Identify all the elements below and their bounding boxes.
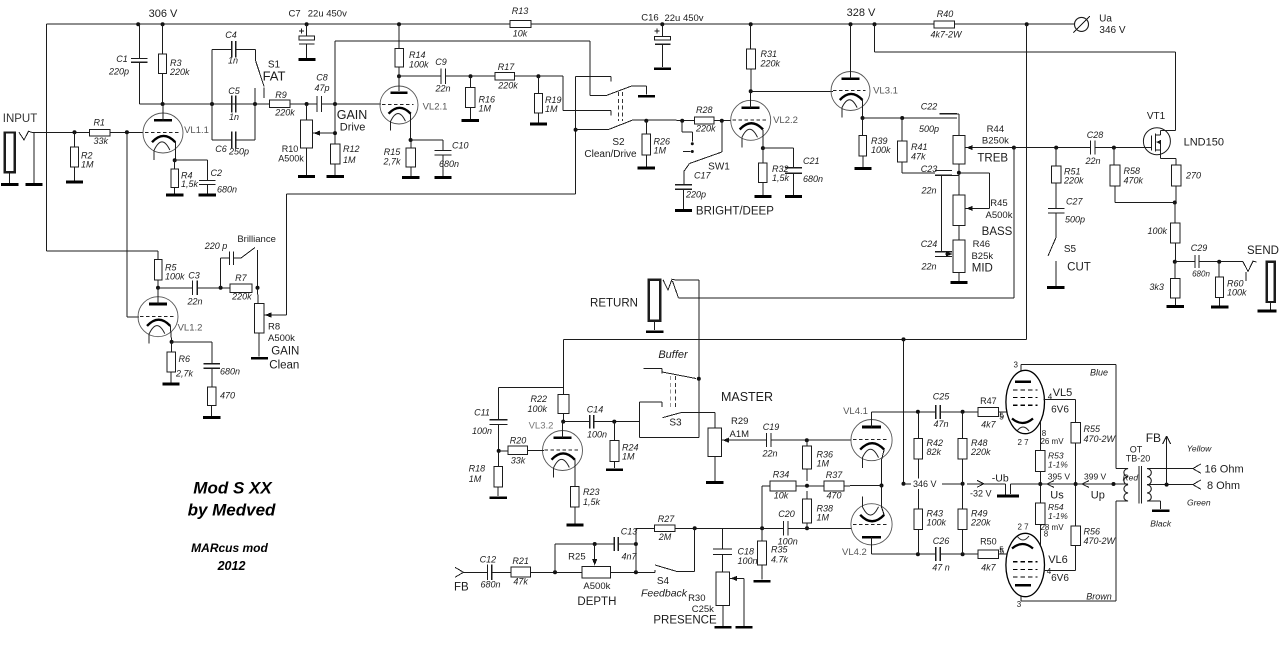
svg-text:4k7: 4k7 [981,420,997,430]
svg-text:R46: R46 [973,239,990,250]
svg-text:R29: R29 [731,416,748,427]
svg-text:100k: 100k [1147,226,1167,236]
svg-text:100k: 100k [165,272,185,282]
svg-text:22n: 22n [434,84,450,94]
svg-text:R28: R28 [696,105,713,115]
svg-text:VL2.1: VL2.1 [423,101,448,112]
svg-text:C10: C10 [452,141,469,151]
svg-text:S3: S3 [669,418,682,429]
svg-text:TB-20: TB-20 [1126,454,1151,464]
svg-text:47n: 47n [933,419,948,429]
svg-text:C14: C14 [587,405,604,415]
svg-text:100k: 100k [1227,288,1247,298]
svg-text:R22: R22 [530,394,547,404]
svg-text:R13: R13 [512,6,529,16]
svg-text:220k: 220k [970,447,991,457]
svg-text:TREB: TREB [977,153,1008,165]
svg-text:26 mV: 26 mV [1040,437,1064,446]
svg-text:SW1: SW1 [708,162,730,173]
svg-text:R10: R10 [282,144,299,154]
svg-text:R20: R20 [510,436,527,446]
svg-text:Clean/Drive: Clean/Drive [584,149,637,160]
svg-text:C6: C6 [215,144,227,154]
svg-text:220k: 220k [497,81,518,91]
svg-text:Clean: Clean [269,360,299,372]
svg-text:5: 5 [1000,411,1005,420]
svg-text:1M: 1M [81,160,94,170]
svg-text:346 V: 346 V [1099,25,1125,36]
svg-text:INPUT: INPUT [3,113,38,125]
svg-text:R56: R56 [1084,527,1101,537]
svg-text:250p: 250p [228,147,249,157]
svg-text:FB: FB [454,582,469,594]
svg-text:8 Ohm: 8 Ohm [1207,480,1240,492]
svg-text:220p: 220p [108,67,129,77]
svg-text:S2: S2 [612,137,625,148]
svg-text:2M: 2M [658,532,672,542]
svg-text:VL1.2: VL1.2 [178,322,203,333]
svg-text:470-2W: 470-2W [1084,536,1117,546]
svg-text:R9: R9 [275,90,287,100]
svg-text:33k: 33k [511,456,526,466]
svg-text:VT1: VT1 [1147,111,1166,122]
svg-text:100k: 100k [927,518,947,528]
svg-text:1M: 1M [622,452,635,462]
svg-text:1M: 1M [545,104,558,114]
svg-text:Black: Black [1150,519,1172,529]
svg-text:A500k: A500k [583,581,610,592]
svg-text:Up: Up [1091,489,1105,501]
svg-text:R8: R8 [268,321,280,332]
svg-text:22n: 22n [1084,156,1100,166]
svg-text:C23: C23 [921,164,938,174]
svg-text:R27: R27 [658,514,676,524]
svg-text:C25k: C25k [692,604,714,615]
svg-text:100n: 100n [472,426,492,436]
svg-text:FB: FB [1146,431,1161,445]
svg-text:Green: Green [1187,498,1211,508]
svg-text:BASS: BASS [982,226,1013,238]
svg-text:1n: 1n [229,112,239,122]
svg-text:1-1%: 1-1% [1048,511,1068,521]
svg-text:S5: S5 [1064,244,1077,255]
svg-text:R47: R47 [980,396,997,406]
svg-text:C18: C18 [738,547,755,557]
svg-text:C12: C12 [480,555,497,565]
svg-text:Brilliance: Brilliance [237,234,276,245]
svg-text:22n: 22n [920,186,936,196]
svg-text:500p: 500p [919,124,939,134]
svg-text:346 V: 346 V [913,479,937,489]
svg-text:47k: 47k [513,577,528,587]
svg-text:1M: 1M [469,474,482,484]
svg-text:33k: 33k [94,136,109,146]
svg-text:R21: R21 [512,556,529,566]
svg-text:22u 450v: 22u 450v [664,13,703,24]
svg-text:1n: 1n [228,56,238,66]
svg-text:MASTER: MASTER [721,390,773,404]
svg-text:BRIGHT/DEEP: BRIGHT/DEEP [696,206,774,218]
svg-text:B25k: B25k [971,251,993,262]
svg-text:28 mV: 28 mV [1040,523,1064,532]
svg-text:R41: R41 [911,142,928,152]
svg-text:R18: R18 [469,464,486,474]
svg-text:C2: C2 [211,168,223,178]
svg-text:R40: R40 [937,9,954,19]
svg-text:Brown: Brown [1086,591,1112,601]
svg-text:47k: 47k [911,152,926,162]
svg-text:680n: 680n [217,185,237,195]
svg-text:4: 4 [1047,567,1052,576]
svg-text:100k: 100k [871,145,891,155]
svg-text:100k: 100k [409,60,429,70]
svg-text:R31: R31 [761,49,778,59]
svg-text:C11: C11 [474,408,490,418]
svg-text:2,7k: 2,7k [175,369,194,379]
svg-text:1M: 1M [817,513,830,523]
svg-text:4n7: 4n7 [621,551,637,561]
svg-text:R37: R37 [826,470,844,480]
svg-text:C28: C28 [1087,130,1104,140]
svg-text:1,5k: 1,5k [181,179,199,189]
svg-text:GAIN: GAIN [337,108,368,122]
svg-text:R1: R1 [93,118,105,128]
svg-text:VL5: VL5 [1053,387,1073,399]
svg-text:270: 270 [1185,171,1201,181]
svg-text:VL3.1: VL3.1 [873,85,898,96]
svg-text:22n: 22n [761,449,777,459]
svg-text:C27: C27 [1066,197,1084,207]
svg-text:680n: 680n [480,580,500,590]
svg-text:CUT: CUT [1067,262,1091,274]
svg-text:220k: 220k [695,124,716,134]
svg-text:220p: 220p [685,190,706,200]
svg-text:2 7: 2 7 [1017,438,1029,447]
svg-text:C20: C20 [778,509,795,519]
svg-text:500p: 500p [1065,215,1085,225]
svg-text:100n: 100n [778,537,798,547]
svg-text:399 V: 399 V [1084,472,1107,482]
svg-text:MARcus mod: MARcus mod [191,541,268,555]
svg-text:C22: C22 [921,102,938,112]
svg-text:B250k: B250k [982,136,1009,147]
svg-text:R6: R6 [179,354,191,364]
svg-text:2012: 2012 [217,559,246,573]
svg-text:4k7: 4k7 [981,563,997,573]
svg-text:100n: 100n [738,556,758,566]
svg-text:328 V: 328 V [847,7,876,19]
svg-text:C16: C16 [641,12,658,23]
svg-text:R44: R44 [987,124,1004,135]
svg-text:R58: R58 [1124,166,1141,176]
svg-text:3: 3 [1014,360,1019,369]
svg-text:A500k: A500k [278,154,304,164]
svg-text:220k: 220k [169,67,190,77]
svg-text:1,5k: 1,5k [583,497,601,507]
svg-text:PRESENCE: PRESENCE [653,615,717,627]
svg-text:2,7k: 2,7k [382,157,401,167]
svg-text:-Ub: -Ub [992,473,1009,485]
svg-text:22n: 22n [186,297,202,307]
svg-text:C9: C9 [435,57,447,67]
svg-text:470: 470 [220,391,235,401]
svg-text:-32 V: -32 V [970,489,992,499]
svg-text:C8: C8 [316,73,328,83]
svg-text:A1M: A1M [730,429,750,440]
svg-text:R55: R55 [1084,424,1102,434]
svg-text:680n: 680n [1192,269,1210,278]
svg-text:220 p: 220 p [204,241,228,251]
svg-text:S4: S4 [657,576,670,587]
svg-text:10k: 10k [774,491,789,501]
svg-text:C26: C26 [933,536,950,546]
svg-text:RETURN: RETURN [590,298,638,310]
svg-text:22u 450v: 22u 450v [308,8,347,19]
svg-text:C25: C25 [933,392,951,402]
svg-text:R45: R45 [990,198,1007,209]
svg-text:Us: Us [1050,489,1064,501]
svg-text:C19: C19 [763,422,780,432]
svg-text:100k: 100k [527,404,547,414]
svg-text:Buffer: Buffer [658,349,689,361]
svg-text:3k3: 3k3 [1149,282,1164,292]
svg-text:VL6: VL6 [1048,554,1068,566]
svg-text:220k: 220k [970,518,991,528]
svg-text:Ua: Ua [1099,14,1112,25]
svg-text:82k: 82k [927,447,942,457]
svg-text:395 V: 395 V [1048,472,1071,482]
svg-text:6V6: 6V6 [1051,405,1069,416]
svg-text:16 Ohm: 16 Ohm [1205,464,1244,476]
svg-text:1-1%: 1-1% [1048,460,1068,470]
svg-text:1M: 1M [479,104,492,114]
svg-text:10k: 10k [513,29,528,39]
svg-text:2 7: 2 7 [1017,522,1029,531]
svg-text:VL4.2: VL4.2 [842,547,867,558]
svg-text:MID: MID [972,263,993,275]
svg-text:R14: R14 [409,50,426,60]
svg-text:306 V: 306 V [149,8,178,20]
svg-text:R25: R25 [568,552,585,563]
svg-text:R12: R12 [343,144,360,154]
svg-text:C7: C7 [289,8,301,19]
svg-text:47p: 47p [314,83,329,93]
svg-text:680n: 680n [220,367,240,377]
svg-text:SEND: SEND [1247,245,1279,257]
svg-text:Yellow: Yellow [1187,444,1212,454]
svg-text:220k: 220k [274,108,295,118]
svg-text:1,5k: 1,5k [772,173,790,183]
svg-text:6V6: 6V6 [1051,573,1069,584]
svg-text:Blue: Blue [1090,368,1108,378]
svg-text:R50: R50 [980,537,997,547]
svg-text:FAT: FAT [263,69,286,84]
svg-text:1M: 1M [817,459,830,469]
svg-text:100n: 100n [587,430,607,440]
svg-text:Feedback: Feedback [641,588,688,600]
svg-text:680n: 680n [439,159,459,169]
svg-text:C1: C1 [116,54,128,64]
svg-text:LND150: LND150 [1184,136,1224,148]
svg-text:R15: R15 [384,147,402,157]
svg-text:220k: 220k [231,292,252,302]
svg-text:A500k: A500k [986,210,1013,221]
svg-text:Drive: Drive [340,121,366,133]
svg-text:A500k: A500k [268,333,295,344]
svg-text:by Medved: by Medved [188,501,276,520]
svg-text:4k7-2W: 4k7-2W [930,30,963,40]
svg-text:C5: C5 [228,86,240,96]
svg-text:220k: 220k [760,59,781,69]
svg-text:1M: 1M [654,146,667,156]
svg-text:470: 470 [826,491,841,501]
svg-text:VL2.2: VL2.2 [773,115,798,126]
svg-text:5: 5 [1000,547,1005,556]
svg-text:220k: 220k [1063,176,1084,186]
svg-text:4.7k: 4.7k [771,555,789,565]
svg-text:C13: C13 [621,527,638,537]
svg-text:680n: 680n [803,174,823,184]
svg-text:DEPTH: DEPTH [577,596,616,608]
svg-text:Mod S XX: Mod S XX [193,478,273,497]
svg-text:C21: C21 [803,156,820,166]
svg-text:C3: C3 [188,271,200,281]
svg-text:1M: 1M [343,155,356,165]
svg-text:R34: R34 [773,470,790,480]
svg-text:VL4.1: VL4.1 [843,406,868,417]
svg-text:R30: R30 [688,593,705,604]
svg-text:VL3.2: VL3.2 [529,420,554,431]
svg-text:C29: C29 [1191,243,1208,253]
svg-text:VL1.1: VL1.1 [184,125,209,136]
svg-text:C4: C4 [225,30,237,40]
svg-text:R17: R17 [498,62,516,72]
svg-text:470-2W: 470-2W [1084,434,1117,444]
svg-text:R7: R7 [235,273,247,283]
svg-text:GAIN: GAIN [271,346,299,358]
svg-text:47 n: 47 n [932,562,950,572]
svg-text:470k: 470k [1124,176,1144,186]
svg-text:22n: 22n [920,262,936,272]
svg-text:R23: R23 [583,487,600,497]
svg-text:C24: C24 [921,239,938,249]
